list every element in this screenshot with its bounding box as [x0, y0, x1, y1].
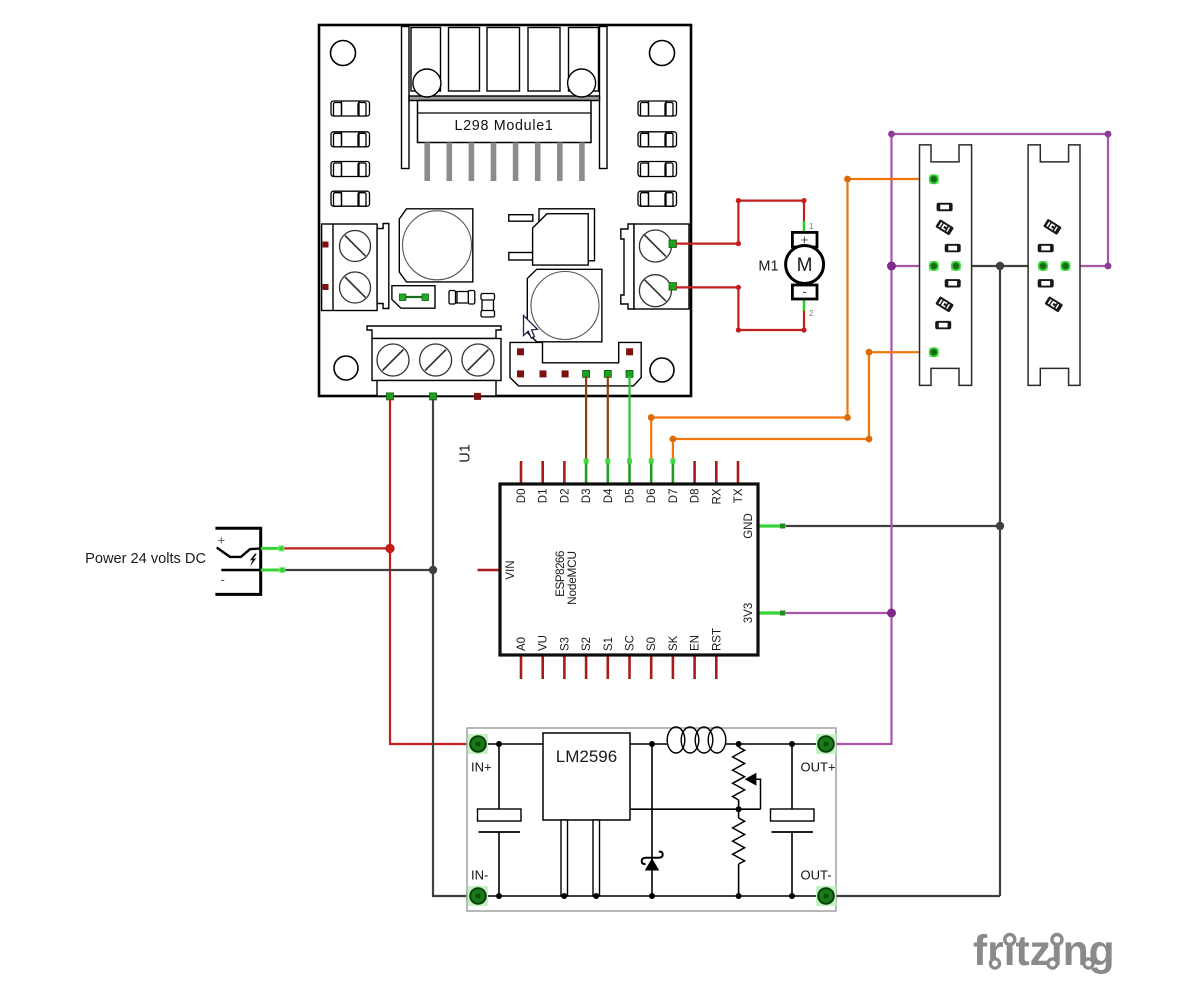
- pin VIN stub: [478, 569, 501, 572]
- svg-text:TX: TX: [733, 488, 745, 503]
- bend dot orange (847,417): [844, 414, 851, 421]
- terminal block right pad 2 (green): [669, 283, 677, 291]
- resistor small horizontal: [449, 291, 475, 305]
- wire red motor top (segment d): [803, 201, 805, 224]
- svg-text:IN-: IN-: [471, 868, 488, 883]
- mounting hole bottom-left: [334, 356, 358, 380]
- L298 IC pins: [424, 143, 584, 182]
- svg-text:EN: EN: [690, 635, 702, 651]
- wire green header to D5: [628, 376, 630, 461]
- connection dot D7: [670, 459, 675, 464]
- power jack plug blade: [217, 548, 261, 557]
- connection square 3V3: [780, 611, 785, 616]
- pin D6 stub (connected): [650, 461, 653, 484]
- power jack lightning bolt: [250, 554, 257, 567]
- terminal block bottom screw 2: [420, 344, 452, 376]
- resistor R-low: [733, 809, 745, 896]
- header pad green D3: [583, 370, 590, 377]
- wire purple bus to sensor1 pad: [892, 265, 934, 267]
- sensor B SMD resistor 2: [1038, 279, 1054, 287]
- bend dot red (738,243): [736, 241, 741, 246]
- capacitor C2 (large electrolytic): [527, 269, 602, 342]
- pin S0 stub: [650, 655, 653, 679]
- power pin - (green): [261, 569, 284, 572]
- heatsink: [402, 27, 608, 169]
- ESP8266 block body: [500, 484, 758, 655]
- svg-text:D7: D7: [668, 489, 680, 504]
- terminal block right screw 2: [639, 275, 671, 307]
- terminal block left pad 2 (dark red): [323, 284, 329, 290]
- LM2596 leg 2: [593, 820, 600, 896]
- power pin + (green): [261, 547, 283, 550]
- wire gray right bus vertical: [999, 266, 1001, 896]
- sensor B SMD resistor 1: [1038, 244, 1054, 252]
- header pad red 2: [517, 370, 524, 377]
- svg-text:NodeMCU: NodeMCU: [565, 551, 579, 605]
- terminal block right pad 1 (green): [669, 240, 677, 248]
- pin TX stub: [737, 461, 740, 484]
- power jack minus contact line: [221, 569, 260, 572]
- terminal block left screw 2: [340, 272, 371, 303]
- wire red motor bottom (segment c): [738, 329, 804, 331]
- sensor A pad mid-left: [929, 261, 939, 271]
- svg-text:L298 Module1: L298 Module1: [454, 118, 553, 134]
- bend dot orange (869,352): [866, 349, 873, 356]
- motor M1 pin 1 (green): [803, 221, 806, 232]
- terminal block right 2-pin body: [621, 224, 689, 309]
- svg-text:SC: SC: [625, 635, 637, 651]
- svg-text:VU: VU: [538, 635, 550, 651]
- sensor A SMD resistor 2: [945, 244, 961, 252]
- terminal block bottom screw 1: [377, 344, 409, 376]
- wire orange D6 to sensor1 top pad: [651, 179, 934, 461]
- pin 3V3 stub (connected): [758, 611, 786, 614]
- bend dot orange (671,439): [670, 436, 677, 443]
- header pad red 4: [562, 370, 569, 377]
- bend dot red (804,330): [801, 327, 806, 332]
- wire red motor top (segment b): [737, 201, 739, 244]
- sensor A SMD resistor 1: [937, 203, 953, 211]
- heatsink screw left: [413, 69, 441, 97]
- svg-text:OUT+: OUT+: [801, 760, 836, 775]
- bend dot purple (1108,134): [1105, 131, 1112, 138]
- sensor B pad left: [1038, 261, 1048, 271]
- junction dots bottom rail: [496, 893, 502, 899]
- svg-text:S1: S1: [603, 637, 615, 651]
- bend dot red (738,330): [736, 327, 741, 332]
- svg-text:GND: GND: [743, 513, 755, 539]
- connection dot D5: [627, 459, 632, 464]
- svg-text:LM2596: LM2596: [556, 747, 617, 766]
- svg-text:D2: D2: [559, 489, 571, 504]
- pin EN stub: [693, 655, 696, 679]
- terminal block right screw 1: [639, 230, 671, 262]
- terminal block bottom screw 3: [462, 344, 494, 376]
- wire gray OUT- to bus: [834, 895, 1000, 897]
- connection square GND: [780, 524, 785, 529]
- mounting hole top-right: [650, 41, 675, 66]
- connection dot D4: [605, 459, 610, 464]
- wire gray L298 pin2 vertical to LM2596 IN-: [433, 399, 469, 896]
- header pad red 3: [540, 370, 547, 377]
- SMD resistors right column: [638, 101, 677, 206]
- svg-text:D4: D4: [603, 488, 615, 503]
- pin D4 stub (connected): [606, 461, 609, 484]
- svg-text:D1: D1: [538, 489, 550, 504]
- input capacitor C-in: [478, 744, 522, 896]
- svg-text:D6: D6: [646, 489, 658, 504]
- svg-text:U1: U1: [458, 444, 474, 463]
- bend dot red (804,200): [801, 198, 806, 203]
- wire red motor bottom (segment d): [803, 308, 805, 330]
- pin GND stub (connected): [758, 524, 786, 527]
- pin D0 stub: [520, 461, 523, 484]
- bend dot orange (650,417): [648, 414, 655, 421]
- LM2596 IC box: [543, 733, 630, 820]
- inductor L1: [667, 727, 726, 753]
- svg-text:2: 2: [809, 309, 814, 318]
- connection dot D6: [649, 459, 654, 464]
- bend dot red (738,200): [736, 198, 741, 203]
- junction gray (1000,266): [996, 262, 1004, 270]
- L298 IC body: [418, 101, 592, 143]
- mounting hole bottom-right: [650, 358, 674, 382]
- sensor A IC 1 (rotated): [935, 219, 954, 235]
- svg-text:IN+: IN+: [471, 760, 492, 775]
- svg-text:S2: S2: [581, 637, 593, 651]
- sensor module A outline: [920, 145, 972, 386]
- bend dot red (738,287): [736, 285, 741, 290]
- svg-text:M: M: [797, 255, 813, 276]
- board bottom pad (dark red): [474, 393, 481, 400]
- sensor A SMD resistor 3: [945, 279, 961, 287]
- LM2596 leg 1: [561, 820, 568, 896]
- junction purple (891,266): [887, 262, 896, 271]
- power pin + connection square: [279, 546, 284, 551]
- wire purple 3V3 to bus: [786, 612, 892, 614]
- SMD resistors left column: [331, 101, 370, 206]
- pin S1 stub: [606, 655, 609, 679]
- heatsink screw right: [568, 69, 596, 97]
- LM2596 board outline: [467, 728, 836, 911]
- junction purple (891,613): [887, 609, 896, 618]
- terminal block left pad 1 (dark red): [323, 242, 329, 248]
- pin D8 stub: [693, 461, 696, 484]
- svg-text:D3: D3: [581, 489, 593, 504]
- wire brown header to D4: [607, 376, 609, 461]
- svg-text:SK: SK: [668, 635, 680, 651]
- motor M1 terminal + box: [792, 232, 817, 247]
- output capacitor C-out: [771, 744, 815, 896]
- pin S2 stub: [585, 655, 588, 679]
- sensor A IC 2 (rotated): [935, 296, 954, 312]
- bottom rail wire: [478, 895, 826, 897]
- board bottom pad OUT1 (green): [387, 393, 394, 400]
- pad OUT+: [816, 734, 836, 754]
- junction dots top rail: [496, 741, 502, 747]
- svg-text:S3: S3: [559, 637, 571, 651]
- junction gray (433,569): [429, 566, 437, 574]
- header pad green D5: [626, 370, 633, 377]
- potentiometer arrow head: [745, 773, 757, 786]
- pin D2 stub: [563, 461, 566, 484]
- wire red motor bottom (segment b): [737, 287, 739, 330]
- svg-text:A0: A0: [516, 637, 528, 651]
- svg-text:D8: D8: [690, 489, 702, 504]
- svg-text:-: -: [221, 572, 225, 587]
- pin D7 stub (connected): [672, 461, 675, 484]
- terminal block bottom 3-pin body: [367, 326, 501, 396]
- pad OUT-: [816, 886, 836, 906]
- bend dot purple (891,134): [888, 131, 895, 138]
- svg-text:3V3: 3V3: [743, 603, 755, 623]
- svg-text:OUT-: OUT-: [801, 868, 832, 883]
- wire red L298 pin1 vertical to LM2596 IN+: [390, 399, 470, 744]
- regulator (transistor style): [509, 209, 595, 265]
- pin SC stub: [628, 655, 631, 679]
- pin header bottom-right block: [510, 342, 641, 386]
- pin RX stub: [715, 461, 718, 484]
- pin D3 stub (connected): [585, 461, 588, 484]
- pin D5 stub (connected): [628, 461, 631, 484]
- junction gray (1000,526): [996, 522, 1004, 530]
- sensor B IC 1 (rotated): [1043, 219, 1062, 235]
- svg-text:RX: RX: [711, 488, 723, 504]
- board bottom pad GND (green): [430, 393, 437, 400]
- svg-text:RST: RST: [711, 628, 723, 651]
- wire gray GND to right bus: [786, 525, 1000, 527]
- motor M1 pin 2 (green): [803, 299, 806, 311]
- connection dot D3: [584, 459, 589, 464]
- pin A0 stub: [520, 655, 523, 679]
- wire gray power- horizontal: [284, 569, 433, 571]
- mounting hole top-left: [331, 41, 356, 66]
- jumper JP1: [392, 286, 435, 309]
- wire purple OUT+ to bus: [834, 134, 1108, 744]
- sensor B IC 2 (rotated): [1044, 296, 1063, 312]
- diode D1 (schottky): [642, 744, 663, 896]
- svg-text:D5: D5: [625, 489, 637, 504]
- pin RST stub: [715, 655, 718, 679]
- wire brown header to D3: [585, 376, 587, 461]
- svg-text:VIN: VIN: [505, 560, 517, 579]
- bend dot orange (869,439): [866, 436, 873, 443]
- capacitor C1 (large electrolytic): [399, 209, 473, 282]
- L298 module board outline: [319, 25, 691, 396]
- header pad red 5: [626, 348, 633, 355]
- bend dot purple (1108,266): [1105, 263, 1112, 270]
- power jack symbol: [215, 528, 260, 594]
- pad IN+: [468, 734, 488, 754]
- sensor A pad mid-right: [951, 261, 961, 271]
- junction dot pot bottom: [736, 806, 742, 812]
- resistor small vertical: [481, 294, 495, 318]
- sensor A SMD resistor 4: [935, 321, 951, 329]
- wire orange D7 to sensor1 bottom pad: [673, 352, 934, 461]
- sensor B pad right: [1061, 261, 1071, 271]
- bend dot orange (847,179): [844, 176, 851, 183]
- pin S3 stub: [563, 655, 566, 679]
- wire red power+ horizontal: [283, 547, 390, 549]
- pad IN-: [468, 886, 488, 906]
- motor M1 body circle: [786, 246, 824, 284]
- svg-text:M1: M1: [758, 259, 778, 275]
- header pad red 1: [517, 348, 524, 355]
- motor M1 terminal - box: [792, 285, 817, 299]
- sensor module B outline: [1028, 145, 1080, 386]
- mouse cursor: [524, 316, 538, 339]
- svg-text:S0: S0: [646, 637, 658, 651]
- svg-text:D0: D0: [516, 489, 528, 504]
- svg-text:Power 24 volts DC: Power 24 volts DC: [85, 551, 206, 567]
- fritzing logo: [973, 928, 1115, 975]
- terminal block left 2-pin body: [322, 224, 389, 311]
- top rail wire: [478, 743, 668, 745]
- pin D1 stub: [541, 461, 544, 484]
- power pin - connection square: [280, 568, 285, 573]
- header pad green D4: [604, 370, 611, 377]
- potentiometer R-adj: [733, 744, 761, 809]
- sensor A pad top: [929, 174, 939, 184]
- svg-text:1: 1: [809, 222, 814, 231]
- terminal block left screw 1: [340, 231, 371, 262]
- svg-text:+: +: [218, 533, 226, 548]
- feedback wire LM2596 to pot: [630, 808, 761, 810]
- pin VU stub: [541, 655, 544, 679]
- pin SK stub: [672, 655, 675, 679]
- wire red L298 OUT3 to motor pin1 (segment a): [676, 243, 738, 245]
- wire gray sensor bridge: [956, 265, 1043, 267]
- wire red motor top (segment c): [738, 200, 804, 202]
- sensor A pad bottom: [929, 347, 939, 357]
- svg-text:-: -: [802, 284, 806, 299]
- wire red L298 OUT4 to motor pin2 (segment a): [676, 286, 738, 288]
- junction red (390,548): [385, 544, 394, 553]
